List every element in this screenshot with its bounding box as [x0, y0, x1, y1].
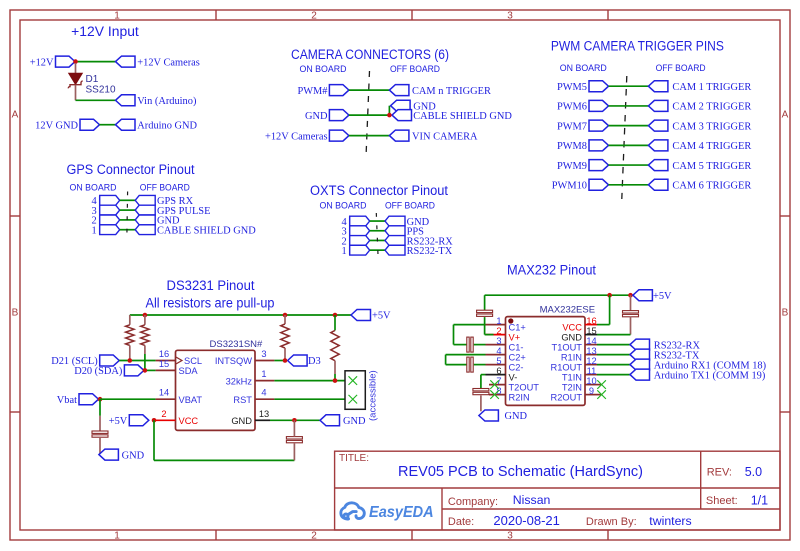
pin 14 VBAT — [156, 398, 176, 400]
wire cap3 top — [484, 295, 486, 310]
wire GND stub — [388, 106, 390, 115]
wire SDA — [147, 369, 156, 371]
junction D3 — [283, 358, 288, 363]
pin 15 SDA — [156, 369, 176, 371]
wire C6 to GND — [480, 395, 482, 411]
wire +12V — [75, 61, 116, 63]
ground flag GND — [99, 449, 119, 460]
net flag GPS PULSE — [135, 205, 155, 215]
wire cap2 riser — [293, 444, 295, 461]
wire row — [609, 85, 649, 87]
net flag GND (DS3231) — [320, 415, 340, 426]
connector bus line left — [99, 195, 101, 234]
junction camera GND — [387, 113, 392, 118]
wire — [597, 374, 630, 376]
net flag PWM7 — [589, 120, 609, 131]
svg-text:DS3231SN#: DS3231SN# — [210, 339, 264, 350]
junction VCC — [152, 418, 157, 423]
svg-text:MAX232ESE: MAX232ESE — [540, 305, 595, 316]
capacitor C1 — [92, 431, 108, 433]
svg-text:1: 1 — [496, 316, 501, 326]
resistor pull-up R3 — [284, 315, 286, 324]
wire — [370, 249, 385, 251]
svg-text:16: 16 — [159, 349, 169, 359]
svg-text:OFF BOARD: OFF BOARD — [390, 64, 440, 75]
net flag GND — [329, 110, 349, 121]
wire row — [349, 114, 390, 116]
wire INTSQW — [274, 360, 283, 362]
pin 7 T2OUT — [489, 384, 506, 386]
wire — [597, 364, 630, 366]
wire V- loop — [481, 374, 486, 376]
net flag RS232-RX — [630, 339, 650, 350]
wire cap3 to V+ — [484, 317, 486, 335]
pin 10 T2IN — [585, 384, 601, 386]
wire C1+ loop — [454, 324, 486, 326]
net flag D3 — [288, 355, 308, 366]
svg-text:12: 12 — [586, 356, 596, 366]
pin 14 T1OUT — [585, 344, 597, 346]
svg-text:OFF BOARD: OFF BOARD — [140, 183, 190, 194]
pin 13 R1IN — [585, 354, 597, 356]
wire +5V rail — [485, 294, 633, 296]
connector bus line left — [349, 216, 351, 255]
connector bus line right — [403, 216, 405, 255]
junction GND cap — [292, 418, 297, 423]
pin 16 SCL — [156, 360, 176, 362]
svg-text:15: 15 — [586, 326, 596, 336]
junction SCL R1 — [128, 358, 133, 363]
pin 1 C1+ — [486, 324, 506, 326]
wire cap7 to GND pin — [630, 316, 632, 334]
svg-text:TITLE:: TITLE: — [339, 453, 369, 464]
connector pin flag — [100, 225, 120, 235]
svg-text:RST: RST — [233, 395, 252, 405]
net flag GPS RX — [135, 195, 155, 205]
svg-text:Date:: Date: — [448, 516, 474, 528]
svg-text:+5V: +5V — [372, 311, 391, 322]
capacitor C3 — [477, 310, 493, 312]
pin 13 GND — [255, 419, 270, 421]
svg-text:CABLE SHIELD GND: CABLE SHIELD GND — [157, 226, 256, 237]
svg-text:10: 10 — [586, 376, 596, 386]
no-connect X pin 32kHz — [349, 376, 358, 385]
pin 3 C1- — [486, 344, 506, 346]
net flag PWM9 — [589, 160, 609, 171]
svg-text:CAM 1 TRIGGER: CAM 1 TRIGGER — [672, 82, 751, 93]
svg-text:9: 9 — [589, 386, 594, 396]
svg-text:Company:: Company: — [448, 496, 498, 508]
svg-text:15: 15 — [159, 359, 169, 369]
resistor pull-up R1 — [129, 315, 131, 325]
net flag GND (camera) — [391, 100, 411, 111]
svg-text:PWM6: PWM6 — [557, 102, 587, 113]
no-connect X pin RST — [349, 395, 358, 404]
no-connect X pin 8 — [490, 390, 499, 399]
wire C4 to C1- — [474, 344, 486, 346]
svg-text:PWM9: PWM9 — [557, 161, 587, 172]
junction rail R3 — [283, 313, 288, 318]
net flag CABLE SHIELD GND — [135, 225, 155, 235]
svg-text:R1OUT: R1OUT — [550, 363, 582, 373]
svg-text:C2+: C2+ — [509, 353, 526, 363]
svg-text:ON BOARD: ON BOARD — [560, 63, 607, 74]
svg-text:3: 3 — [496, 336, 501, 346]
svg-text:2020-08-21: 2020-08-21 — [493, 513, 560, 528]
wire VBAT — [100, 398, 156, 400]
wire 32kHz — [274, 380, 351, 382]
net flag RS232-TX — [385, 245, 405, 255]
net flag +5V — [351, 310, 371, 321]
svg-text:Drawn By:: Drawn By: — [586, 516, 637, 528]
svg-text:EasyEDA: EasyEDA — [369, 504, 434, 521]
net flag PWM# — [329, 85, 349, 96]
junction rail VCC — [607, 293, 612, 298]
svg-text:1: 1 — [91, 226, 96, 237]
svg-text:T2IN: T2IN — [562, 383, 582, 393]
net flag GND — [135, 215, 155, 225]
svg-text:GND: GND — [122, 450, 145, 461]
wire 12V GND — [100, 124, 116, 126]
net flag CAM 1 TRIGGER — [648, 81, 668, 92]
net flag PWM8 — [589, 140, 609, 151]
board divider dashed line — [376, 213, 378, 262]
svg-text:C1-: C1- — [509, 343, 524, 353]
svg-text:CAM 4 TRIGGER: CAM 4 TRIGGER — [672, 141, 751, 152]
junction rail R2 — [143, 313, 148, 318]
board divider dashed line — [366, 71, 370, 157]
svg-text:C2-: C2- — [509, 363, 524, 373]
pin 6 V- — [486, 374, 506, 376]
svg-text:R1IN: R1IN — [561, 353, 582, 363]
svg-text:+12V Cameras: +12V Cameras — [137, 57, 200, 68]
svg-text:D20 (SDA): D20 (SDA) — [74, 366, 122, 377]
svg-text:32kHz: 32kHz — [226, 376, 253, 386]
svg-text:C1+: C1+ — [509, 323, 526, 333]
svg-text:GPS Connector Pinout: GPS Connector Pinout — [67, 162, 195, 177]
junction +12V — [73, 59, 78, 64]
svg-text:4: 4 — [261, 388, 266, 398]
svg-text:2: 2 — [161, 409, 166, 419]
svg-text:REV:: REV: — [707, 467, 732, 479]
svg-text:Arduino GND: Arduino GND — [137, 120, 197, 131]
svg-text:OFF BOARD: OFF BOARD — [385, 200, 435, 211]
resistor pull-up R2 — [144, 315, 146, 325]
net flag Arduino GND — [116, 119, 136, 130]
wire — [370, 220, 385, 222]
net flag RS232-RX — [385, 236, 405, 246]
svg-text:1/1: 1/1 — [751, 494, 768, 508]
svg-text:13: 13 — [586, 346, 596, 356]
net flag PWM5 — [589, 81, 609, 92]
svg-text:B: B — [782, 308, 789, 319]
pin 15 GND — [585, 334, 597, 336]
svg-text:REV05 PCB to Schematic (HardSy: REV05 PCB to Schematic (HardSync) — [398, 464, 643, 480]
svg-text:CAM 3 TRIGGER: CAM 3 TRIGGER — [672, 121, 751, 132]
svg-text:+5V: +5V — [109, 416, 128, 427]
svg-text:T2OUT: T2OUT — [509, 383, 540, 393]
net flag +5V — [633, 290, 653, 301]
svg-text:A: A — [782, 110, 789, 121]
net flag Vbat — [79, 394, 99, 405]
svg-text:+12V Input: +12V Input — [71, 24, 139, 39]
svg-text:CAMERA CONNECTORS (6): CAMERA CONNECTORS (6) — [291, 47, 449, 62]
svg-text:VBAT: VBAT — [179, 395, 203, 405]
wire — [370, 239, 385, 241]
wire C5 to C2- — [474, 364, 486, 366]
pin 2 VCC — [154, 419, 176, 421]
svg-text:14: 14 — [586, 336, 596, 346]
net flag GND — [385, 216, 405, 226]
wire row — [609, 105, 649, 107]
svg-text:3: 3 — [507, 10, 513, 21]
svg-text:PWM10: PWM10 — [552, 181, 587, 192]
svg-text:OFF BOARD: OFF BOARD — [656, 63, 706, 74]
svg-text:VIN CAMERA: VIN CAMERA — [412, 131, 478, 142]
net flag PWM10 — [589, 179, 609, 190]
pin 1 32kHz — [255, 380, 274, 382]
svg-text:CAM 6 TRIGGER: CAM 6 TRIGGER — [672, 181, 751, 192]
svg-text:MAX232 Pinout: MAX232 Pinout — [507, 263, 596, 278]
svg-text:V+: V+ — [509, 333, 521, 343]
svg-text:ON BOARD: ON BOARD — [70, 183, 117, 194]
op-amp U2 MAX232ESE — [506, 317, 586, 406]
svg-text:PWM5: PWM5 — [557, 82, 587, 93]
wire row — [609, 125, 649, 127]
no-connect X pin 7 — [490, 380, 499, 389]
wire cap7 top — [630, 295, 632, 310]
svg-text:CABLE SHIELD GND: CABLE SHIELD GND — [413, 111, 512, 122]
pin 9 R2OUT — [585, 394, 601, 396]
svg-text:2: 2 — [311, 10, 317, 21]
net flag 12V GND — [80, 119, 100, 130]
connector pin flag — [350, 216, 370, 226]
net flag CAM 5 TRIGGER — [648, 160, 668, 171]
wire cap2 up — [293, 420, 295, 436]
net flag VIN CAMERA — [389, 130, 409, 141]
svg-text:PWM7: PWM7 — [557, 121, 587, 132]
svg-text:Nissan: Nissan — [513, 493, 551, 507]
svg-text:T1IN: T1IN — [562, 373, 582, 383]
net flag D21 (SCL) — [100, 355, 120, 366]
wire SCL — [119, 360, 155, 362]
svg-text:twinters: twinters — [649, 514, 691, 528]
net flag +12V Cameras — [116, 56, 136, 67]
net flag CAM n TRIGGER — [389, 85, 409, 96]
junction SDA R2 — [143, 368, 148, 373]
svg-text:RS232-TX: RS232-TX — [407, 246, 453, 257]
connector pin flag — [350, 236, 370, 246]
pin 5 C2- — [486, 364, 506, 366]
pin 3 INTSQW — [255, 360, 274, 362]
net flag +5V (VCC) — [129, 415, 149, 426]
svg-text:+12V Cameras: +12V Cameras — [265, 131, 328, 142]
svg-text:SS210: SS210 — [86, 84, 116, 95]
pin 2 V+ — [486, 334, 506, 336]
junction rail cap — [628, 293, 633, 298]
board divider dashed line — [622, 76, 627, 199]
wire GND — [270, 419, 320, 421]
wire Vbat cap — [99, 399, 101, 416]
svg-text:V-: V- — [509, 373, 518, 383]
svg-text:Sheet:: Sheet: — [706, 495, 738, 507]
junction Vbat — [98, 397, 103, 402]
wire VCC down — [153, 420, 155, 460]
svg-text:GND: GND — [561, 333, 582, 343]
svg-text:DS3231 Pinout: DS3231 Pinout — [167, 278, 255, 293]
ground flag GND (MAX232) — [479, 410, 499, 421]
svg-text:PWM CAMERA TRIGGER PINS: PWM CAMERA TRIGGER PINS — [551, 38, 724, 53]
svg-text:CAM 2 TRIGGER: CAM 2 TRIGGER — [672, 102, 751, 113]
svg-text:INTSQW: INTSQW — [215, 356, 252, 366]
net flag CABLE SHIELD GND — [392, 110, 412, 121]
wire +5V rail — [130, 314, 351, 316]
pin 4 C2+ — [486, 354, 506, 356]
svg-text:16: 16 — [586, 316, 596, 326]
svg-text:3: 3 — [261, 349, 266, 359]
diode D1 SS210 — [75, 63, 77, 73]
wire C2+ loop — [446, 354, 486, 356]
svg-text:2: 2 — [496, 326, 501, 336]
svg-text:12V GND: 12V GND — [35, 120, 78, 131]
svg-text:D3: D3 — [308, 356, 321, 367]
pin 4 RST — [255, 398, 274, 400]
net flag CAM 4 TRIGGER — [648, 140, 668, 151]
svg-text:3: 3 — [507, 530, 513, 541]
junction rail R4 — [333, 313, 338, 318]
svg-text:14: 14 — [159, 388, 169, 398]
resistor pull-up R4 — [334, 315, 336, 330]
wire row — [349, 135, 390, 137]
svg-text:CAM n TRIGGER: CAM n TRIGGER — [412, 86, 491, 97]
svg-text:ON BOARD: ON BOARD — [320, 200, 367, 211]
svg-text:GND: GND — [343, 416, 366, 427]
board divider dashed line — [126, 192, 129, 242]
svg-text:13: 13 — [259, 409, 269, 419]
svg-text:Vin (Arduino): Vin (Arduino) — [137, 96, 196, 107]
svg-text:1: 1 — [261, 369, 266, 379]
connector pin flag — [350, 245, 370, 255]
wire row — [609, 164, 649, 166]
svg-text:VCC: VCC — [179, 416, 199, 426]
net flag Arduino TX1 (COMM 19) — [630, 369, 650, 380]
connector J1 (accessible) — [345, 371, 365, 410]
svg-text:+5V: +5V — [653, 291, 672, 302]
svg-text:OXTS Connector Pinout: OXTS Connector Pinout — [310, 183, 448, 198]
svg-text:Vbat: Vbat — [57, 395, 77, 406]
wire RST — [274, 398, 351, 400]
svg-text:R2IN: R2IN — [509, 393, 530, 403]
net flag Vin (Arduino) — [116, 95, 136, 106]
wire — [120, 229, 136, 231]
wire row — [609, 144, 649, 146]
pin 16 VCC — [585, 324, 597, 326]
svg-text:Arduino TX1 (COMM 19): Arduino TX1 (COMM 19) — [654, 371, 766, 382]
net flag CAM 3 TRIGGER — [648, 120, 668, 131]
wire — [597, 344, 630, 346]
net flag +12V — [56, 56, 76, 67]
wire row — [349, 89, 390, 91]
capacitor C7 — [623, 311, 639, 313]
svg-text:1: 1 — [114, 10, 120, 21]
svg-text:GND: GND — [305, 111, 328, 122]
svg-text:1: 1 — [341, 246, 346, 257]
svg-text:A: A — [12, 110, 19, 121]
svg-text:5.0: 5.0 — [745, 465, 762, 479]
wire — [120, 199, 136, 201]
connector pin flag — [100, 215, 120, 225]
pin 1 marker dot — [508, 318, 513, 323]
connector bus line right — [154, 195, 156, 234]
pin 8 R2IN — [489, 394, 506, 396]
net flag PPS — [385, 226, 405, 236]
connector pin flag — [350, 226, 370, 236]
svg-text:11: 11 — [587, 366, 597, 376]
op-amp U1 DS3231SN# — [176, 350, 256, 430]
svg-text:5: 5 — [496, 356, 501, 366]
svg-text:CAM 5 TRIGGER: CAM 5 TRIGGER — [672, 161, 751, 172]
capacitor C2 — [286, 437, 302, 439]
svg-text:PWM#: PWM# — [297, 86, 327, 97]
svg-text:2: 2 — [311, 530, 317, 541]
svg-text:6: 6 — [496, 366, 501, 376]
net flag PWM6 — [589, 100, 609, 111]
svg-text:B: B — [12, 308, 19, 319]
svg-text:D1: D1 — [86, 74, 99, 85]
wire VCC riser — [597, 324, 610, 326]
no-connect X pin 9 — [597, 390, 606, 399]
connector pin flag — [100, 195, 120, 205]
svg-text:SDA: SDA — [179, 366, 199, 376]
net flag Arduino RX1 (COMM 18) — [630, 359, 650, 370]
wire — [120, 219, 136, 221]
svg-text:(accessible): (accessible) — [368, 370, 379, 421]
svg-text:T1OUT: T1OUT — [552, 343, 583, 353]
net flag CAM 2 TRIGGER — [648, 100, 668, 111]
svg-text:SCL: SCL — [184, 356, 202, 366]
wire cap to gnd — [99, 438, 101, 455]
wire row — [609, 184, 649, 186]
connector pin flag — [100, 205, 120, 215]
junction 32kHz R4 — [333, 378, 338, 383]
capacitor C4 — [467, 337, 469, 352]
svg-text:R2OUT: R2OUT — [550, 393, 582, 403]
pin 12 R1OUT — [585, 364, 597, 366]
net flag +12V Cameras — [329, 130, 349, 141]
svg-text:+12V: +12V — [30, 57, 54, 68]
svg-text:ON BOARD: ON BOARD — [300, 64, 347, 75]
wire — [597, 354, 630, 356]
pin 11 T1IN — [585, 374, 597, 376]
net flag RS232-TX — [630, 349, 650, 360]
wire — [370, 230, 385, 232]
svg-text:GND: GND — [505, 411, 528, 422]
svg-text:GND: GND — [231, 416, 252, 426]
net flag CAM 6 TRIGGER — [648, 179, 668, 190]
capacitor C6 — [473, 389, 489, 391]
svg-text:PWM8: PWM8 — [557, 141, 587, 152]
svg-text:4: 4 — [496, 346, 501, 356]
svg-text:All resistors are pull-up: All resistors are pull-up — [146, 295, 275, 310]
svg-text:VCC: VCC — [562, 323, 582, 333]
net flag D20 (SDA) — [124, 365, 144, 376]
capacitor C5 — [467, 357, 469, 372]
svg-text:1: 1 — [114, 530, 120, 541]
no-connect X pin 10 — [597, 380, 606, 389]
wire Vin — [76, 99, 116, 101]
wire — [120, 209, 136, 211]
